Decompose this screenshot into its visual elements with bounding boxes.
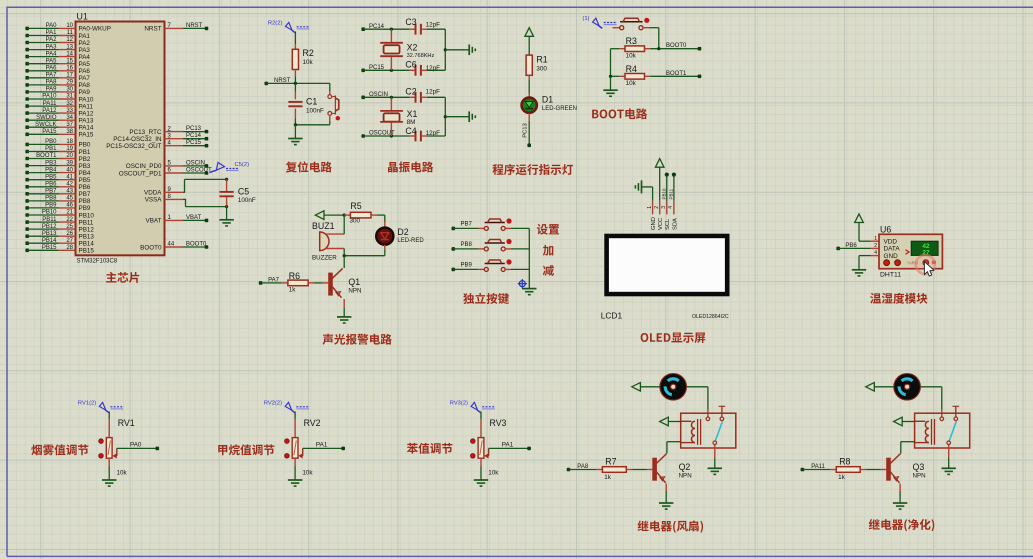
svg-text:25: 25 (66, 224, 73, 230)
svg-text:4: 4 (668, 206, 674, 209)
svg-text:PA7: PA7 (79, 75, 91, 82)
ground keys bus (522, 288, 536, 290)
node PC13 terminal (527, 144, 531, 148)
svg-text:SWCLK: SWCLK (35, 122, 56, 128)
power arrow relay coil (894, 417, 903, 426)
svg-text:30: 30 (66, 87, 73, 93)
potentiometer RV2 (294, 419, 296, 438)
wire PB6 to DATA (836, 247, 840, 251)
svg-text:PB13: PB13 (42, 231, 57, 237)
svg-text:C4: C4 (405, 126, 416, 136)
svg-text:38: 38 (66, 129, 73, 135)
node R5 junction (343, 214, 346, 217)
pin PB6 (42) wire (25, 182, 90, 192)
caption reset circuit (286, 161, 332, 172)
svg-text:PA13: PA13 (79, 118, 94, 125)
mouse cursor arrow (924, 262, 934, 276)
relay blade (cyan) (949, 421, 956, 441)
pin PB8 (45) wire (25, 196, 90, 206)
svg-text:PB9: PB9 (461, 263, 473, 269)
svg-text:PB9: PB9 (79, 205, 91, 212)
svg-text:R7: R7 (605, 457, 616, 467)
LCD1 pin stubs (652, 201, 654, 215)
svg-text:C6: C6 (405, 60, 416, 70)
svg-text:PA2: PA2 (46, 37, 58, 43)
wire junction to Q1 collector (343, 256, 345, 268)
svg-text:PA14: PA14 (79, 125, 94, 132)
wire PB9 to button (452, 268, 456, 272)
svg-text:PB11: PB11 (42, 217, 57, 223)
pin BOOT0 (44) wire (140, 242, 208, 252)
svg-text:DATA: DATA (884, 246, 901, 253)
svg-text:PA11: PA11 (43, 101, 57, 107)
svg-text:PA5: PA5 (46, 58, 58, 64)
svg-text:PC13_RTC: PC13_RTC (129, 129, 162, 136)
wire C6 to right bus (427, 69, 445, 71)
power arrow motor (866, 383, 875, 392)
wire right bus of X1 (444, 97, 446, 136)
svg-text:PB12: PB12 (42, 224, 57, 230)
capacitor C3 (409, 28, 415, 30)
svg-text:PA10: PA10 (79, 96, 94, 103)
ground right of X1 (468, 111, 470, 122)
node C5 top junction (225, 178, 228, 181)
pin PB11 (22) wire (25, 217, 94, 227)
svg-text:18: 18 (66, 139, 73, 145)
caption main chip (106, 272, 139, 283)
relay contact NO pin (954, 417, 958, 421)
wire R7 to Q2 base (632, 469, 647, 471)
transistor Q1 (329, 273, 332, 295)
wire relay contact to ground (948, 445, 950, 458)
svg-text:R5: R5 (350, 201, 361, 211)
svg-text:NRST: NRST (144, 26, 161, 33)
svg-text:300: 300 (350, 217, 361, 224)
svg-text:PB14: PB14 (79, 241, 95, 248)
capacitor C1 (294, 83, 296, 91)
wire RV2 to ground (294, 467, 296, 480)
caption plus (543, 245, 553, 256)
wire C1 to ground (294, 125, 296, 138)
pin VDDA (9) wire (144, 187, 183, 197)
wire Q1 emitter to ground (343, 299, 345, 308)
wire VDDA to C5 top (183, 191, 185, 193)
caption OLED display (641, 332, 706, 342)
svg-text:44: 44 (168, 242, 175, 248)
wire NRST horizontal (265, 82, 269, 86)
svg-text:PA8: PA8 (79, 82, 91, 89)
svg-text:34: 34 (66, 115, 73, 121)
svg-text:PA15: PA15 (79, 132, 94, 139)
button PB9 (484, 267, 488, 271)
svg-text:C5(2): C5(2) (235, 162, 250, 168)
wire R1 to D1 (528, 80, 530, 94)
wire R2 to NRST node (294, 76, 296, 83)
wire power to R1 (528, 36, 530, 55)
svg-text:PB10: PB10 (42, 210, 57, 216)
svg-text:RV1: RV1 (118, 418, 135, 428)
caption relay purifier (869, 519, 935, 531)
svg-text:PA9: PA9 (79, 89, 91, 96)
svg-text:VDDA: VDDA (144, 190, 162, 197)
svg-text:OSCIN_PD0: OSCIN_PD0 (126, 163, 162, 170)
svg-text:PA8: PA8 (46, 80, 58, 86)
svg-text:R4: R4 (626, 64, 637, 74)
svg-text:300: 300 (536, 65, 547, 72)
svg-text:PB4: PB4 (45, 167, 57, 173)
relay contact NO pin (720, 417, 724, 421)
ground DHT11 (852, 269, 866, 271)
svg-text:PB2: PB2 (79, 156, 91, 163)
pin PB7 (43) wire (25, 189, 90, 199)
svg-text:PA5: PA5 (79, 61, 91, 68)
svg-text:PA4: PA4 (79, 54, 91, 61)
pin VSSA (8) wire (145, 194, 183, 204)
pin PA9 (30) wire (25, 87, 90, 97)
svg-text:PC14: PC14 (186, 133, 202, 139)
svg-text:BUZ1: BUZ1 (312, 221, 335, 231)
svg-text:Q1: Q1 (348, 277, 360, 287)
svg-text:PC13: PC13 (186, 126, 202, 132)
svg-text:PA1: PA1 (502, 441, 514, 448)
pin PC13_RTC (2) wire (129, 126, 208, 136)
U6 readout screen (911, 241, 938, 255)
pin PA14 (37) wire (25, 122, 94, 132)
relay contact common (940, 417, 944, 421)
wire OSCIN row (361, 96, 365, 100)
svg-text:PA10: PA10 (42, 94, 57, 100)
ground Q3 (893, 502, 907, 504)
svg-text:OSCIN: OSCIN (186, 160, 205, 166)
origin marker (blue) (518, 279, 527, 288)
svg-text:PC15: PC15 (186, 140, 202, 146)
capacitor C2 (409, 96, 415, 98)
ground RV1 (102, 479, 116, 481)
pin PB1 (19) wire (25, 146, 90, 156)
button PB8 (484, 247, 488, 251)
power arrow alarm (315, 211, 324, 220)
pin PA15 (38) wire (25, 129, 94, 139)
RV1 wiper (112, 453, 116, 458)
potentiometer RV1 (108, 419, 110, 438)
svg-text:31: 31 (66, 94, 73, 100)
svg-text:8M: 8M (407, 119, 416, 126)
potentiometer RV3 (480, 419, 482, 438)
node BOOT1 terminal (698, 75, 702, 79)
svg-text:PA12: PA12 (42, 108, 57, 114)
resistor R5 (344, 214, 350, 216)
svg-text:2: 2 (654, 206, 660, 209)
pin PA1 (11) wire (25, 30, 90, 40)
wire VSSA to C5 bottom (183, 198, 186, 200)
svg-text:PA0: PA0 (130, 441, 142, 448)
wire motor to relay contact (687, 386, 708, 388)
capacitor C6 (409, 69, 415, 71)
svg-text:VDD: VDD (884, 239, 898, 246)
pin PB10 (21) wire (25, 210, 94, 220)
svg-text:VBAT: VBAT (186, 215, 202, 221)
svg-text:PB5: PB5 (45, 174, 57, 180)
svg-text:OSCOUT: OSCOUT (186, 168, 212, 174)
relay RL body (681, 413, 736, 448)
svg-text:PB8: PB8 (461, 242, 473, 248)
wire Q2 emitter to ground (665, 484, 667, 492)
node NRST-C1 junction (294, 82, 297, 85)
resistor R1 (526, 55, 532, 75)
pin PA11 (32) wire (25, 101, 93, 111)
svg-text:46: 46 (66, 203, 73, 209)
power arrow motor (632, 383, 641, 392)
caption run indicator (492, 164, 573, 175)
svg-text:PB11: PB11 (669, 188, 674, 199)
wire relay contact to ground (714, 445, 716, 458)
pin PA3 (13) wire (25, 44, 90, 54)
svg-text:45: 45 (66, 196, 73, 202)
mouse cursor highlight (916, 255, 935, 274)
relay coil (925, 421, 929, 442)
wire junction to buzzer top (343, 215, 345, 234)
svg-text:22: 22 (66, 217, 73, 223)
resistor R3 (611, 48, 620, 50)
RV2 state dot top (285, 439, 290, 444)
power arrow OLED VCC (655, 159, 664, 168)
svg-text:4: 4 (874, 250, 877, 256)
svg-text:RV2: RV2 (304, 418, 321, 428)
pin PB5 (41) wire (25, 174, 90, 184)
wire R8 to Q3 base (866, 469, 881, 471)
svg-text:C1: C1 (306, 97, 317, 107)
svg-text:PA12: PA12 (79, 110, 94, 117)
pin PA13 (34) wire (25, 115, 94, 125)
svg-text:PB15: PB15 (42, 245, 57, 251)
pin PB12 (25) wire (25, 224, 94, 234)
svg-text:16: 16 (66, 66, 73, 72)
ground OLED GND pin (641, 180, 643, 193)
svg-text:RV3(2): RV3(2) (450, 401, 468, 407)
svg-text:(1): (1) (582, 16, 589, 22)
svg-text:33: 33 (66, 108, 73, 114)
svg-text:D1: D1 (542, 95, 553, 105)
relay contact common (706, 417, 710, 421)
svg-text:NPN: NPN (913, 473, 926, 480)
wire keys ground bus (528, 228, 530, 288)
svg-text:SDA: SDA (672, 218, 678, 230)
pin PA5 (15) wire (25, 58, 90, 68)
svg-text:GND: GND (651, 217, 657, 230)
wire RV1 to ground (108, 467, 110, 480)
svg-text:BUZZER: BUZZER (312, 255, 337, 262)
svg-text:BOOT1: BOOT1 (36, 153, 57, 159)
pin NRST (7) wire (144, 23, 208, 33)
svg-text:1k: 1k (289, 287, 297, 294)
svg-text:10k: 10k (302, 470, 313, 477)
svg-text:D2: D2 (397, 227, 408, 237)
svg-text:RV3: RV3 (490, 418, 507, 428)
pin PB3 (39) wire (25, 160, 90, 170)
wire OLED VCC pin (659, 167, 661, 201)
caption benzene adjust (407, 443, 453, 454)
svg-text:PA15: PA15 (42, 129, 57, 135)
svg-text:42: 42 (66, 182, 73, 188)
svg-text:R1: R1 (536, 55, 547, 65)
svg-text:PB0: PB0 (79, 142, 91, 149)
pin PC14-OSC32_IN (3) wire (113, 133, 208, 143)
sensor U6 body (879, 234, 942, 268)
wire OLED SDA pin (672, 173, 676, 177)
svg-text:PB11: PB11 (79, 219, 94, 226)
svg-text:BOOT0: BOOT0 (666, 43, 687, 49)
node PA0 terminal (156, 447, 160, 451)
caption temp-humidity module (870, 293, 927, 304)
wire R4 to BOOT1 terminal (650, 75, 699, 77)
button RESET (vertical) (329, 91, 331, 94)
wire Q3 emitter to ground (899, 484, 901, 492)
svg-text:PA1: PA1 (79, 33, 91, 40)
wire probe to RV1 (108, 412, 110, 420)
svg-text:STM32F103C8: STM32F103C8 (77, 259, 118, 265)
svg-text:PB15: PB15 (79, 248, 95, 255)
caption BOOT circuit (592, 108, 647, 119)
svg-text:RV1(2): RV1(2) (78, 401, 96, 407)
wire C3 to right bus (427, 28, 445, 30)
svg-text:10k: 10k (303, 59, 314, 66)
svg-text:PB8: PB8 (45, 196, 57, 202)
svg-text:PA1: PA1 (46, 30, 58, 36)
wire motor to relay contact (920, 386, 941, 388)
wire PB7 to button (452, 227, 456, 231)
pin OSCIN_PD0 (5) wire (126, 160, 209, 170)
svg-text:PB7: PB7 (45, 189, 57, 195)
ground relay contact (942, 467, 956, 469)
svg-text:17: 17 (66, 73, 73, 79)
node collector junction (343, 254, 346, 257)
svg-text:DHT11: DHT11 (880, 271, 901, 278)
wire OLED SCL pin (665, 173, 669, 177)
button BOOT (horizontal) (613, 27, 620, 29)
svg-text:32.768KHz: 32.768KHz (407, 53, 435, 59)
pin OSCOUT_PD1 (6) wire (119, 168, 212, 178)
svg-text:OLED12864I2C: OLED12864I2C (692, 314, 729, 320)
ground Q2 (659, 502, 673, 504)
svg-text:11: 11 (67, 30, 74, 36)
relay RL body (915, 413, 970, 448)
svg-text:41: 41 (66, 174, 73, 180)
svg-text:LED-GREEN: LED-GREEN (542, 106, 577, 112)
diode D2 LED-RED (376, 228, 393, 245)
U6 buttons (884, 260, 890, 266)
wire RV2 wiper to PA1 (303, 447, 344, 449)
wire button PB7 to bus (505, 227, 511, 229)
pin PB0 (18) wire (25, 139, 90, 149)
svg-text:PB3: PB3 (79, 163, 91, 170)
pin PA6 (16) wire (25, 66, 90, 76)
svg-text:PC15-OSC32_OUT: PC15-OSC32_OUT (106, 143, 161, 150)
power arrow relay coil (660, 417, 669, 426)
svg-text:PA6: PA6 (79, 68, 91, 75)
svg-text:X2: X2 (407, 42, 418, 52)
svg-text:12pF: 12pF (426, 88, 441, 95)
caption methane adjust (218, 444, 274, 455)
svg-text:BOOT0: BOOT0 (186, 242, 207, 248)
svg-text:PB7: PB7 (461, 222, 473, 228)
svg-text:PC13: PC13 (523, 123, 529, 138)
motor fan (894, 374, 921, 401)
svg-text:1k: 1k (838, 474, 846, 481)
svg-text:12: 12 (66, 37, 73, 43)
wire right bus of X2 (444, 29, 446, 70)
svg-text:C2: C2 (405, 86, 416, 96)
svg-text:21: 21 (66, 210, 73, 216)
pin PA7 (17) wire (25, 73, 90, 83)
svg-text:20: 20 (66, 153, 73, 159)
relay blade (cyan) (715, 421, 722, 441)
pin PA2 (12) wire (25, 37, 90, 47)
svg-text:10k: 10k (626, 80, 637, 87)
node C1 bottom junction (294, 123, 297, 126)
svg-text:SWDIO: SWDIO (36, 115, 57, 121)
svg-text:GND: GND (884, 253, 899, 260)
RV2 state dot bottom (285, 454, 290, 459)
wire C2 to right bus (427, 96, 445, 98)
ground below C1 (288, 138, 302, 140)
node PA1 terminal (341, 447, 345, 451)
svg-text:1k: 1k (604, 474, 612, 481)
svg-text:PA3: PA3 (46, 44, 58, 50)
wire probe to R2 (294, 32, 296, 45)
svg-text:PB1: PB1 (45, 146, 57, 152)
ground right of X2 (468, 45, 470, 56)
svg-text:X1: X1 (407, 109, 418, 119)
wire R3-R4 vertical (610, 49, 612, 77)
svg-text:10: 10 (66, 23, 73, 29)
wire D2 to bottom junction (384, 245, 386, 250)
svg-text:PB14: PB14 (42, 238, 57, 244)
svg-text:Q3: Q3 (913, 462, 925, 472)
node C5 bottom junction (225, 205, 228, 208)
RV3 state dot bottom (471, 454, 476, 459)
wire power to coil (902, 421, 914, 423)
svg-text:10k: 10k (117, 470, 128, 477)
svg-text:14: 14 (66, 51, 73, 57)
svg-text:PB5: PB5 (79, 177, 91, 184)
svg-text:VSSA: VSSA (145, 197, 163, 204)
capacitor C4 (409, 135, 415, 137)
transistor Q3 (887, 458, 890, 480)
RV3 wiper (484, 453, 488, 458)
svg-text:PA7: PA7 (46, 73, 58, 79)
wire button to BOOT0 node (643, 27, 650, 29)
ground RV2 (288, 479, 302, 481)
RV3 state dot top (471, 439, 476, 444)
power arrow DHT11 (855, 214, 864, 223)
wire PB8 to button (452, 247, 456, 251)
svg-text:37: 37 (66, 122, 73, 128)
svg-text:PB6: PB6 (79, 184, 91, 191)
svg-text:NRST: NRST (186, 23, 203, 29)
wire R6 to Q1 base (314, 282, 323, 284)
ground BOOT divider (603, 89, 617, 91)
svg-text:PC14-OSC32_IN: PC14-OSC32_IN (113, 136, 162, 143)
svg-text:27: 27 (66, 238, 73, 244)
caption set (537, 224, 559, 235)
svg-text:Q2: Q2 (679, 462, 691, 472)
svg-text:R2(2): R2(2) (268, 21, 283, 27)
resistor R4 (611, 75, 620, 77)
wire power to R5 junction (324, 214, 344, 216)
svg-text:2: 2 (874, 243, 877, 249)
transistor Q2 (653, 458, 656, 480)
svg-text:100nF: 100nF (238, 197, 256, 204)
